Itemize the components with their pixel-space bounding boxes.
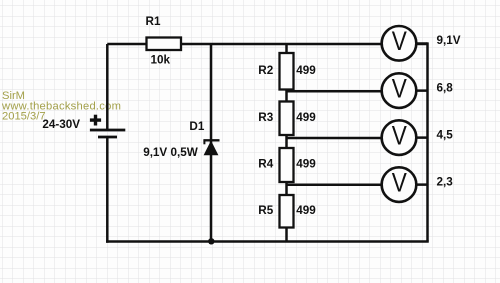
svg-text:D1: D1: [189, 120, 204, 133]
svg-text:2015/3/7: 2015/3/7: [2, 111, 46, 123]
svg-text:499: 499: [296, 158, 316, 171]
svg-text:V: V: [392, 75, 408, 104]
svg-text:R5: R5: [258, 204, 273, 217]
svg-text:R2: R2: [258, 64, 273, 77]
svg-text:499: 499: [296, 111, 316, 124]
svg-text:V: V: [392, 28, 408, 57]
svg-text:499: 499: [296, 204, 316, 217]
svg-text:6,8: 6,8: [437, 81, 454, 94]
svg-text:R3: R3: [258, 111, 273, 124]
svg-text:499: 499: [296, 64, 316, 77]
svg-text:V: V: [392, 122, 408, 151]
svg-text:4,5: 4,5: [437, 128, 454, 141]
svg-text:9,1V 0,5W: 9,1V 0,5W: [143, 146, 199, 159]
svg-text:9,1V: 9,1V: [437, 34, 461, 47]
svg-text:10k: 10k: [151, 54, 171, 67]
svg-text:R4: R4: [258, 158, 273, 171]
svg-text:2,3: 2,3: [437, 176, 454, 189]
svg-text:V: V: [392, 169, 408, 198]
svg-text:R1: R1: [146, 15, 161, 28]
svg-text:24-30V: 24-30V: [42, 118, 80, 131]
